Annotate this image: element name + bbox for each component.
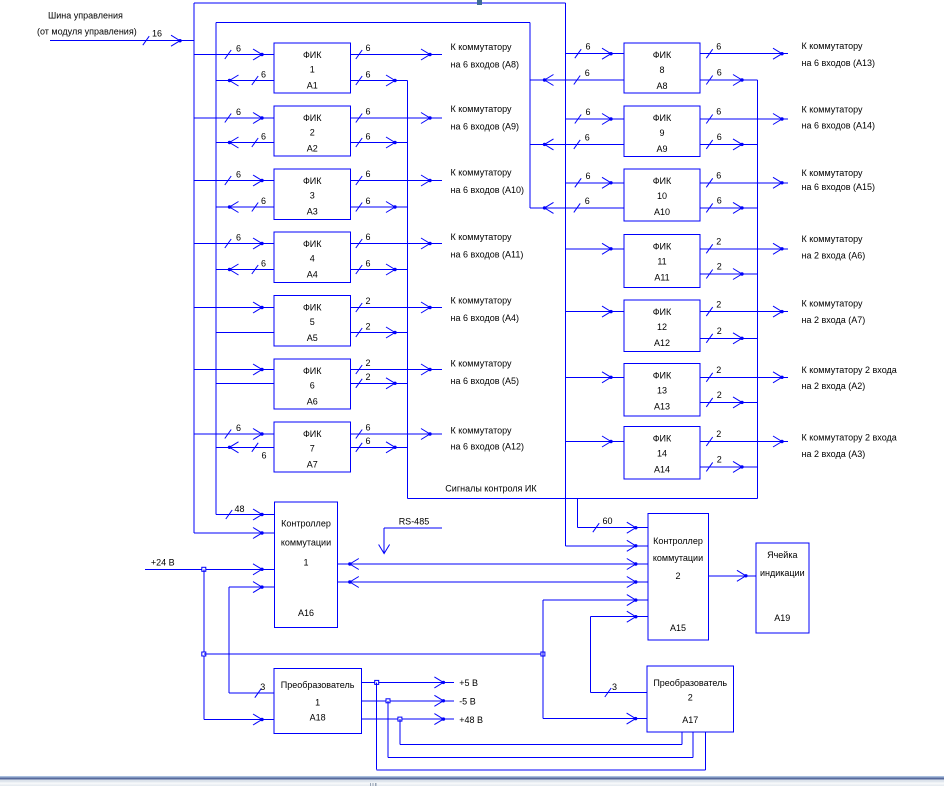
svg-text:К коммутатору: К коммутатору (802, 299, 864, 309)
svg-text:Преобразователь: Преобразователь (653, 678, 727, 688)
svg-text:ФИК: ФИК (653, 242, 672, 252)
svg-text:2: 2 (716, 365, 721, 375)
svg-text:К коммутатору: К коммутатору (451, 232, 513, 242)
svg-text:К коммутатору 2 входа: К коммутатору 2 входа (802, 433, 897, 443)
svg-text:6: 6 (261, 70, 266, 80)
svg-text:на 6 входов (А14): на 6 входов (А14) (802, 121, 876, 131)
svg-text:А6: А6 (307, 397, 318, 407)
svg-text:А18: А18 (310, 713, 326, 723)
svg-text:А17: А17 (682, 715, 698, 725)
svg-text:на 6 входов (А11): на 6 входов (А11) (451, 250, 524, 260)
svg-text:Контроллер: Контроллер (281, 519, 331, 529)
svg-text:А16: А16 (298, 608, 314, 618)
svg-text:ФИК: ФИК (303, 176, 322, 186)
svg-text:2: 2 (675, 571, 680, 581)
svg-text:К коммутатору: К коммутатору (451, 42, 513, 52)
svg-text:6: 6 (236, 423, 241, 433)
svg-text:А14: А14 (654, 465, 670, 475)
svg-text:6: 6 (236, 44, 241, 54)
svg-text:2: 2 (366, 296, 371, 306)
svg-text:коммутации: коммутации (653, 553, 703, 563)
svg-text:(от модуля управления): (от модуля управления) (37, 27, 137, 37)
svg-text:Ячейка: Ячейка (767, 550, 797, 560)
svg-text:ФИК: ФИК (653, 176, 672, 186)
svg-text:ФИК: ФИК (303, 50, 322, 60)
svg-text:6: 6 (366, 196, 371, 206)
svg-text:6: 6 (586, 107, 591, 117)
svg-text:6: 6 (366, 423, 371, 433)
svg-text:6: 6 (366, 258, 371, 268)
svg-text:К коммутатору: К коммутатору (802, 168, 864, 178)
svg-text:ФИК: ФИК (653, 307, 672, 317)
svg-text:6: 6 (717, 132, 722, 142)
svg-text:К коммутатору: К коммутатору (802, 41, 864, 51)
svg-text:ФИК: ФИК (303, 303, 322, 313)
svg-text:6: 6 (236, 170, 241, 180)
svg-text:6: 6 (366, 107, 371, 117)
svg-text:А5: А5 (307, 333, 318, 343)
svg-text:6: 6 (366, 436, 371, 446)
svg-text:16: 16 (152, 29, 162, 39)
svg-text:+24 В: +24 В (151, 558, 175, 568)
svg-text:ФИК: ФИК (653, 434, 672, 444)
svg-text:К коммутатору: К коммутатору (451, 168, 513, 178)
svg-text:А4: А4 (307, 270, 318, 280)
svg-text:5: 5 (310, 317, 315, 327)
svg-text:Сигналы контроля ИК: Сигналы контроля ИК (445, 484, 537, 494)
svg-text:1: 1 (315, 698, 320, 708)
svg-text:К коммутатору: К коммутатору (802, 234, 864, 244)
svg-text:9: 9 (659, 128, 664, 138)
svg-text:4: 4 (310, 254, 315, 264)
svg-text:А15: А15 (670, 623, 686, 633)
svg-text:2: 2 (366, 372, 371, 382)
svg-text:3: 3 (612, 682, 617, 692)
svg-text:6: 6 (366, 69, 371, 79)
svg-text:6: 6 (366, 232, 371, 242)
svg-text:2: 2 (717, 262, 722, 272)
svg-text:К коммутатору: К коммутатору (802, 105, 864, 115)
svg-text:48: 48 (235, 504, 245, 514)
svg-text:ФИК: ФИК (303, 366, 322, 376)
svg-text:А8: А8 (656, 81, 667, 91)
svg-text:6: 6 (261, 259, 266, 269)
svg-text:на 6 входов (А9): на 6 входов (А9) (451, 122, 520, 132)
svg-text:ФИК: ФИК (653, 113, 672, 123)
svg-text:60: 60 (603, 516, 613, 526)
svg-text:Контроллер: Контроллер (653, 536, 703, 546)
svg-text:-5 В: -5 В (459, 697, 476, 707)
svg-text:6: 6 (586, 171, 591, 181)
svg-text:К коммутатору: К коммутатору (451, 296, 513, 306)
svg-text:А7: А7 (307, 460, 318, 470)
svg-text:6: 6 (717, 195, 722, 205)
svg-text:А19: А19 (774, 613, 790, 623)
svg-text:Шина управления: Шина управления (48, 11, 123, 21)
svg-text:на 2 входа (А2): на 2 входа (А2) (802, 381, 866, 391)
svg-text:3: 3 (260, 682, 265, 692)
svg-text:14: 14 (657, 449, 667, 459)
svg-text:на 6 входов (А5): на 6 входов (А5) (451, 376, 520, 386)
svg-text:А10: А10 (654, 207, 670, 217)
svg-text:на 6 входов (А15): на 6 входов (А15) (802, 182, 876, 192)
svg-text:К коммутатору: К коммутатору (451, 426, 513, 436)
svg-text:2: 2 (717, 326, 722, 336)
svg-text:ФИК: ФИК (653, 370, 672, 380)
svg-text:2: 2 (310, 128, 315, 138)
svg-text:6: 6 (717, 68, 722, 78)
svg-text:ФИК: ФИК (303, 239, 322, 249)
svg-text:2: 2 (717, 454, 722, 464)
svg-text:6: 6 (236, 233, 241, 243)
svg-text:на 6 входов (А13): на 6 входов (А13) (802, 58, 876, 68)
svg-text:на 6 входов (А12): на 6 входов (А12) (451, 442, 525, 452)
svg-text:6: 6 (585, 68, 590, 78)
svg-text:2: 2 (716, 237, 721, 247)
svg-text:К коммутатору: К коммутатору (451, 359, 513, 369)
svg-text:А1: А1 (307, 81, 318, 91)
svg-text:А11: А11 (654, 273, 669, 283)
svg-text:1: 1 (310, 65, 315, 75)
svg-text:на 6 входов (А10): на 6 входов (А10) (451, 185, 525, 195)
svg-text:+5 В: +5 В (459, 678, 478, 688)
svg-text:6: 6 (366, 43, 371, 53)
svg-text:8: 8 (659, 65, 664, 75)
svg-text:13: 13 (657, 385, 667, 395)
svg-text:2: 2 (688, 693, 693, 703)
svg-text:2: 2 (366, 358, 371, 368)
svg-text:на 6 входов (А8): на 6 входов (А8) (451, 60, 520, 70)
svg-text:7: 7 (310, 444, 315, 454)
svg-text:ФИК: ФИК (653, 50, 672, 60)
svg-text:RS-485: RS-485 (399, 517, 430, 527)
svg-text:6: 6 (366, 169, 371, 179)
svg-text:ФИК: ФИК (303, 429, 322, 439)
svg-text:на 2 входа (А3): на 2 входа (А3) (802, 449, 866, 459)
svg-text:2: 2 (716, 299, 721, 309)
svg-text:на 2 входа (А6): на 2 входа (А6) (802, 251, 866, 261)
svg-text:6: 6 (262, 450, 267, 460)
svg-text:6: 6 (366, 131, 371, 141)
svg-text:А13: А13 (654, 401, 670, 411)
svg-text:А9: А9 (656, 144, 667, 154)
svg-text:2: 2 (717, 390, 722, 400)
svg-text:6: 6 (586, 42, 591, 52)
svg-text:3: 3 (310, 191, 315, 201)
svg-text:индикации: индикации (760, 568, 805, 578)
svg-text:6: 6 (261, 196, 266, 206)
svg-text:А2: А2 (307, 144, 318, 154)
svg-text:6: 6 (236, 107, 241, 117)
svg-text:6: 6 (585, 196, 590, 206)
svg-text:А12: А12 (654, 338, 670, 348)
svg-text:6: 6 (716, 107, 721, 117)
svg-text:12: 12 (657, 322, 667, 332)
svg-text:А3: А3 (307, 207, 318, 217)
svg-text:К коммутатору: К коммутатору (451, 104, 513, 114)
svg-text:ФИК: ФИК (303, 113, 322, 123)
svg-text:6: 6 (261, 132, 266, 142)
svg-text:на 6 входов (А4): на 6 входов (А4) (451, 313, 520, 323)
svg-text:коммутации: коммутации (281, 538, 331, 548)
svg-text:2: 2 (716, 429, 721, 439)
svg-text:+48 В: +48 В (459, 715, 483, 725)
svg-text:6: 6 (585, 132, 590, 142)
svg-text:К коммутатору 2 входа: К коммутатору 2 входа (802, 365, 897, 375)
svg-text:Преобразователь: Преобразователь (281, 680, 355, 690)
svg-text:11: 11 (657, 257, 666, 267)
svg-text:6: 6 (716, 171, 721, 181)
svg-text:2: 2 (366, 321, 371, 331)
svg-text:на 2 входа (А7): на 2 входа (А7) (802, 315, 866, 325)
svg-text:10: 10 (657, 191, 667, 201)
svg-text:6: 6 (310, 381, 315, 391)
svg-text:6: 6 (716, 41, 721, 51)
svg-text:1: 1 (303, 558, 308, 568)
